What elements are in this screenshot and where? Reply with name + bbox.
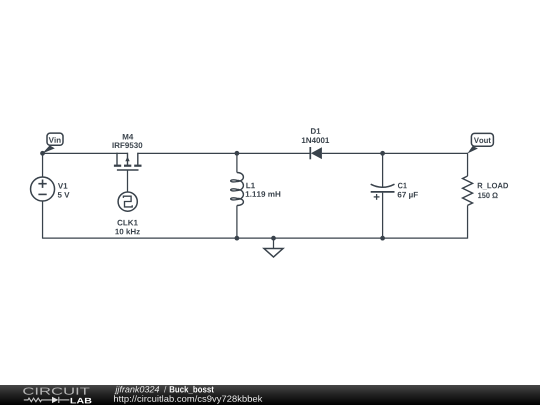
net label Vout [467,133,493,153]
label D1 1N4001 [302,128,329,143]
transistor M4 PMOS IRF9530 [114,153,142,170]
wire R_LOAD bottom to bottom rail [467,205,469,238]
node ground junction [271,236,276,241]
node L1 top [235,151,240,156]
label CLK1 10 kHz [115,220,140,235]
wire L1 bottom stub [236,206,238,239]
footer url [114,395,262,403]
wire C1 bottom stub [382,193,384,239]
voltage source V1 [31,177,55,201]
wire L1 top stub [236,153,238,173]
label M4 IRF9530 [112,134,142,148]
capacitor C1 polarized [371,184,395,200]
label L1 1.119 mH [246,183,281,197]
wire ground stub [273,238,275,248]
node C1 top [380,151,385,156]
node L1 bottom [235,236,240,241]
label V1 5 V [58,183,70,198]
wire M4 gate to CLK1 [127,170,129,192]
ground [264,249,283,258]
wire left rail Vin node to V1 top [42,153,44,178]
wire top rail D1 anode to Vout corner [322,152,468,154]
node C1 bottom [380,236,385,241]
wire C1 top stub [382,153,384,187]
wire top rail Vin node to M4 source [42,152,128,154]
wire Vout corner down to R_LOAD [467,153,469,176]
diode D1 1N4001 [310,147,322,159]
node Vin junction [40,151,45,156]
wire bottom rail [43,237,468,239]
footer bar [0,385,540,405]
wire left rail V1 bottom to bottom rail [42,201,44,239]
resistor R_LOAD [463,176,473,205]
footer title: user / project [114,386,213,394]
clock source CLK1 [118,192,137,211]
CircuitLab logo [23,387,91,403]
wire top rail M4 drain to D1 cathode [138,152,310,154]
label R_LOAD 150 Ohm [478,183,508,198]
net label Vin [42,133,63,153]
inductor L1 [231,173,244,206]
label C1 67 uF [398,183,418,199]
